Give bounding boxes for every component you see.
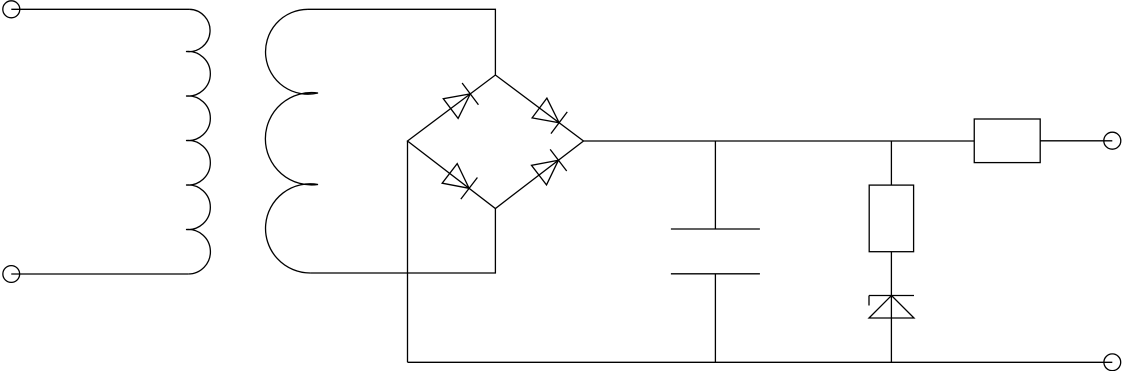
wire bridge left corner to bottom rail — [407, 141, 409, 362]
resistor R2 (zener feed) — [869, 185, 913, 252]
wire J1 to primary — [11, 8, 189, 10]
zener diode D5 — [869, 296, 914, 319]
capacitor C1 plates — [671, 229, 760, 274]
diode D4 (bridge bottom-right) — [531, 149, 566, 185]
wire resistor R1 to output — [1040, 140, 1112, 142]
diode D3 (bridge bottom-left) — [442, 164, 477, 200]
terminal J1 (AC input top) — [3, 1, 20, 18]
wire capacitor to bottom rail — [714, 274, 716, 363]
bridge rectifier diamond wires — [408, 75, 584, 209]
wire rail to capacitor — [714, 141, 716, 229]
wire bottom rail (negative) — [408, 361, 1113, 363]
wire primary to J2 — [11, 273, 188, 275]
terminal J3 (output top) — [1104, 132, 1121, 149]
wire rail to resistor R2 — [890, 141, 892, 185]
diode D2 (bridge top-right) — [532, 98, 567, 133]
terminal J2 (AC input bottom) — [3, 266, 20, 283]
wire secondary bottom to bridge — [310, 209, 495, 274]
diode D1 (bridge top-left) — [443, 83, 478, 118]
wire secondary top to bridge — [308, 9, 495, 75]
wire positive rail — [584, 140, 975, 142]
transformer secondary winding T1b — [265, 9, 318, 273]
wire resistor R2 through zener to bottom rail — [890, 252, 892, 363]
transformer primary winding T1a — [186, 9, 210, 274]
resistor R1 (series output) — [974, 119, 1040, 163]
terminal J4 (output bottom) — [1104, 354, 1121, 371]
